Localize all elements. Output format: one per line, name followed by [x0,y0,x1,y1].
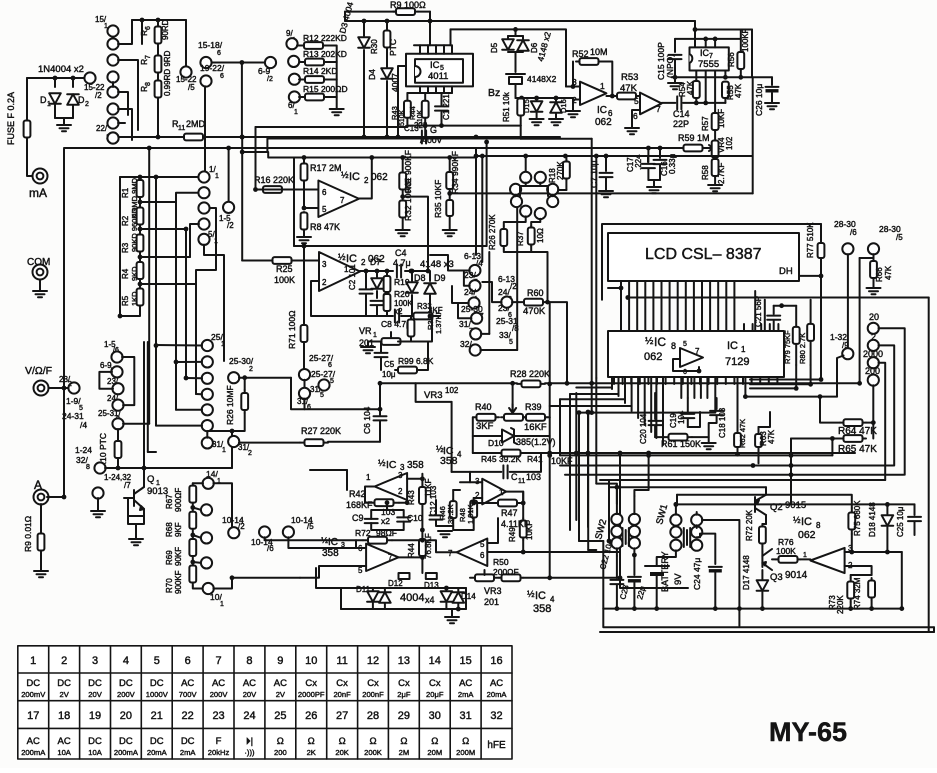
op-amp IC8b [810,548,844,573]
svg-text:DC: DC [57,678,71,689]
contact 10-14/6 [259,526,270,537]
svg-text:062: 062 [595,117,612,128]
resistor R32 100KF [399,200,406,218]
junction [53,76,58,81]
svg-text:168KF: 168KF [346,500,373,510]
diode D5 [502,39,514,50]
resistor R11 2MD [179,134,208,141]
svg-text:C4: C4 [395,248,407,258]
svg-text:C6 104: C6 104 [362,406,372,434]
resistor R7 [155,55,162,73]
svg-text:IC: IC [386,459,397,471]
wire [457,588,459,591]
wire [147,342,149,452]
wire [633,548,635,575]
junction [554,96,559,101]
svg-text:C20 104: C20 104 [639,413,648,444]
capacitor C9 [365,519,378,523]
capacitor C19 104 [681,414,694,418]
svg-text:5: 5 [320,392,324,399]
svg-text:R44: R44 [407,543,416,558]
wire [674,60,676,77]
wire [694,21,696,47]
wire [386,503,388,510]
svg-text:R5: R5 [121,295,130,306]
junction [364,269,369,274]
svg-text:28: 28 [367,710,379,722]
junction [420,538,425,543]
junction [138,255,143,260]
svg-text:LCD CSL– 8387: LCD CSL– 8387 [645,246,762,263]
junction [610,94,615,99]
wire [555,98,557,101]
svg-text:2: 2 [322,278,327,287]
wire [330,46,337,109]
wire [120,176,199,178]
svg-text:½: ½ [793,515,801,525]
wire [851,574,872,576]
wire [655,436,664,438]
wire [118,20,132,44]
pin [695,71,697,81]
wire frame bottom [600,631,934,633]
pin [443,86,445,93]
wire [356,540,366,548]
contact 15-22/5 [180,66,191,77]
wire [436,520,453,526]
wire [859,258,861,383]
wire [470,481,482,483]
wire [482,282,501,302]
wire [464,272,470,286]
junction [456,607,461,612]
resistor R15 200ohmD [299,94,330,101]
SW1 contacts [684,528,690,547]
svg-text:1: 1 [30,655,36,667]
op-amp IC8a [680,348,703,367]
ground [702,443,716,449]
pin [705,39,707,48]
svg-text:90RD: 90RD [161,19,170,40]
resistor R52 10M [576,58,602,65]
contact 31/2 [228,436,239,447]
wire [398,316,432,342]
resistor R44 510K [422,93,429,126]
junction [563,154,568,159]
wire bus [481,156,483,262]
svg-text:16: 16 [490,655,502,667]
diode D11 [367,591,379,602]
svg-text:D12: D12 [388,579,403,588]
svg-text:200M: 200M [456,748,475,757]
capacitor C20 104 [649,421,662,425]
wire [688,412,700,427]
junction [302,155,307,160]
wire [363,21,365,36]
wire [647,169,649,180]
svg-text:AC: AC [243,678,256,689]
junction [523,154,528,159]
svg-text:½: ½ [341,170,349,180]
junction [378,381,383,386]
wire [27,77,85,79]
svg-text:AC: AC [490,678,503,689]
wire [241,137,243,261]
wire [99,372,113,389]
svg-text:R9 100Ω: R9 100Ω [390,0,426,10]
diode D13 [441,591,453,602]
wire [761,546,763,552]
svg-text:Ω: Ω [308,736,315,747]
junction [138,227,143,232]
svg-text:R4: R4 [121,268,130,279]
svg-text:9: 9 [277,655,283,667]
wire [451,402,453,472]
svg-text:4004: 4004 [400,592,424,604]
wire [304,399,306,410]
wire bus [560,454,832,456]
svg-text:20mA: 20mA [147,748,168,757]
svg-text:R2: R2 [121,215,130,226]
svg-text:R20: R20 [394,289,410,299]
wire [124,497,134,499]
contact 23/5 [469,280,480,291]
junction [519,96,524,101]
junction [240,135,245,140]
svg-text:/4: /4 [80,420,87,430]
resistor R69 90KF [189,535,196,560]
wire [616,556,618,578]
wire [465,588,467,609]
diode D4 [381,68,393,79]
svg-text:47K: 47K [686,80,695,95]
svg-text:AC: AC [459,678,472,689]
wire [647,148,649,162]
resistor R33 3KF [410,313,436,320]
wire [773,306,775,314]
svg-text:Ω: Ω [277,736,284,747]
wire [242,152,294,158]
svg-text:C18 103: C18 103 [718,407,727,438]
junction [240,60,245,65]
wire [435,500,437,514]
svg-text:Ω: Ω [369,736,376,747]
wire right border [928,298,930,633]
op-amp IC3a [375,473,408,500]
wire [695,29,752,31]
contact [288,56,299,67]
svg-text:1.37KF: 1.37KF [434,309,443,334]
resistor R4 9KD [137,259,144,282]
wire [407,125,520,127]
svg-text:R79 75KF: R79 75KF [783,330,792,364]
wire [480,349,517,351]
wire [418,11,430,13]
svg-text:0.99RD 9RD: 0.99RD 9RD [163,50,172,96]
contact 31/5 [318,379,329,390]
svg-text:1-24: 1-24 [75,445,92,455]
svg-text:/5: /5 [188,83,195,92]
VR3 wiper [484,570,486,575]
svg-text:D15: D15 [522,99,531,113]
junction [428,314,433,319]
svg-text:2: 2 [398,487,403,496]
wire [265,537,363,540]
capacitor C26 10u [766,87,779,93]
svg-text:8: 8 [671,341,676,351]
svg-text:4: 4 [457,450,462,459]
svg-text:2μF: 2μF [397,690,411,699]
svg-text:47K: 47K [734,83,743,98]
resistor R16 220K [258,186,287,193]
wire [697,534,716,564]
svg-text:C10: C10 [407,513,423,523]
svg-text:C25 10μ: C25 10μ [896,506,905,537]
ground [129,539,143,545]
diode D3 [358,37,370,48]
junction [484,140,489,145]
junction [646,451,651,456]
svg-text:6: 6 [217,50,221,57]
resistor R32 1.37KF [408,318,415,338]
wire [452,471,470,473]
resistor R5 1KD [137,286,144,308]
wire [552,195,554,197]
wire [207,413,244,438]
wire [566,86,580,88]
wire [436,315,440,317]
contact 25-30/2 [228,372,239,383]
svg-text:D5: D5 [490,42,499,53]
wire [386,271,388,276]
wire [683,102,725,104]
svg-text:R74 32M: R74 32M [853,577,862,610]
svg-text:4.7μ: 4.7μ [393,258,411,268]
wire [547,416,550,418]
wire [470,471,501,473]
wire [213,483,232,527]
junction [577,410,582,415]
junction [369,155,374,160]
wire [141,36,143,44]
contact 1-5/2 [223,202,234,213]
wire [520,183,540,196]
wire bus [575,393,577,520]
wire [820,258,822,380]
junction [871,420,876,425]
resistor R39 16KF [524,414,547,421]
svg-text:200mA: 200mA [114,748,139,757]
junction [420,476,425,481]
resistor R51 10K [517,98,524,116]
wire [255,127,257,190]
resistor R25 100K [270,257,294,264]
svg-text:4011: 4011 [428,71,448,82]
capacitor C6 104 [374,416,387,420]
wire [531,219,540,226]
wire [656,576,658,609]
svg-text:/5: /5 [307,522,314,531]
wire bus [569,394,571,530]
pin [427,86,429,93]
svg-text:R67: R67 [165,494,174,509]
diode D16 [550,102,562,113]
wire [54,105,56,118]
wire [737,430,739,433]
wire [765,487,767,495]
resistor R55 47K [722,82,729,98]
contact 1-32/9 [842,348,853,359]
contact SW2e [611,537,622,548]
wire bus [560,465,893,467]
resistor R27 220K [300,439,328,446]
pin [744,377,746,397]
wire bus [600,479,885,481]
svg-text:Q3: Q3 [770,572,783,583]
resistor R70 900KF [189,562,196,586]
svg-text:AC: AC [27,736,40,747]
terminal COM [33,265,48,280]
junction [400,194,405,199]
wire [399,502,407,504]
svg-text:20nF: 20nF [333,690,351,699]
wire [692,437,709,442]
junction [565,381,570,386]
wire [702,520,740,626]
svg-text:358: 358 [533,603,551,615]
svg-text:11: 11 [518,478,525,485]
svg-text:2.7KF: 2.7KF [717,163,726,184]
resistor R28 220K [517,381,545,388]
svg-text:R39: R39 [525,402,542,412]
svg-text:R8 47K: R8 47K [310,222,340,232]
resistor R44 76.8KF [419,536,426,559]
op-amp IC2b [319,252,360,291]
wire [204,245,224,361]
svg-text:47K: 47K [884,265,893,280]
wire [457,603,459,609]
svg-text:900ΩF: 900ΩF [174,488,183,512]
wire [118,136,186,138]
IC U1 7129 [608,331,784,377]
wire [372,603,374,609]
wire [771,77,773,85]
capacitor C14 22P [677,96,681,109]
wire [591,139,593,384]
wire [837,356,844,397]
wire [687,419,689,427]
svg-text:15: 15 [460,655,472,667]
resistor R43 11KF [419,485,426,506]
svg-text:9V: 9V [673,573,684,585]
q1 box [128,498,144,524]
junction [818,394,823,399]
wire [526,452,855,454]
svg-text:5: 5 [154,655,160,667]
wire [429,295,431,315]
junction [632,553,637,558]
svg-text:R52: R52 [572,49,589,59]
wire [620,578,688,588]
wire [421,474,423,485]
wire [609,486,766,488]
contact 31/7 [470,328,481,339]
wire [522,540,524,552]
capacitor C18 103 [710,411,723,415]
junction [646,146,651,151]
svg-text:1: 1 [220,601,224,608]
junction [409,269,414,274]
wire [193,561,202,564]
svg-text:D3 4004: D3 4004 [337,1,355,35]
svg-text:2mA: 2mA [458,690,475,699]
wire [303,181,305,208]
wire [460,472,470,482]
wire [515,29,517,36]
svg-text:DC: DC [119,736,133,747]
svg-text:20mA: 20mA [487,690,508,699]
svg-text:2000PF: 2000PF [298,690,325,699]
wire [591,383,593,412]
svg-text:6: 6 [328,362,332,369]
op-amp IC3b [366,544,398,571]
wire [193,535,202,538]
svg-text:/2: /2 [238,522,245,531]
wire [879,345,895,465]
capacitor C4 4.7u [397,265,401,278]
wire [239,442,300,444]
junction [735,452,740,457]
svg-text:D10: D10 [488,438,504,448]
capacitor C15 100P [669,55,682,59]
contact 32/8 [94,462,105,473]
wire [26,78,28,118]
contact [107,117,118,128]
junction [253,187,258,192]
svg-text:R77 510K: R77 510K [806,222,815,258]
wire [458,304,471,318]
wire [72,105,74,118]
svg-text:1KD: 1KD [130,291,139,306]
wire [765,515,767,518]
wire [579,540,603,542]
resistor R61 150K [664,434,692,441]
transistor Q3 9014 [762,549,772,570]
wire [472,417,474,453]
junction [362,135,367,140]
wire [376,271,378,277]
wire [330,79,337,81]
svg-text:Ω: Ω [339,736,346,747]
ground [668,83,682,89]
wire [831,439,833,456]
resistor R75 680K [848,508,855,534]
svg-text:201: 201 [484,597,499,607]
wire [774,305,797,307]
contact [198,202,209,213]
junction [615,485,620,490]
svg-text:C8 4.7μ: C8 4.7μ [381,319,411,329]
resistor R35 10KF [446,200,453,216]
svg-text:4148X2: 4148X2 [527,74,557,84]
contact 25/1 [202,340,213,351]
wire [303,246,305,324]
svg-text:7: 7 [388,553,393,562]
wire bus [745,396,837,398]
wire [772,558,776,560]
resistor R13 202KD [299,59,330,66]
svg-text:5: 5 [480,540,485,549]
